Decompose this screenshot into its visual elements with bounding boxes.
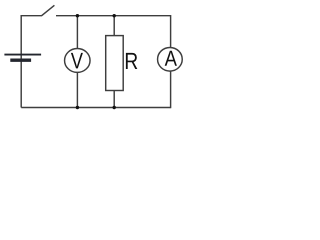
wire: right edge upper (to ammeter)	[170, 15, 172, 48]
resistor label R	[126, 53, 137, 69]
wire: resistor branch lower	[113, 90, 115, 108]
wire: voltmeter branch upper	[76, 16, 78, 50]
wire: right edge lower (from ammeter)	[170, 71, 172, 108]
switch S1 (open blade)	[41, 5, 54, 16]
voltmeter label V	[71, 53, 83, 68]
battery B1 long plate (+)	[4, 54, 41, 56]
resistor R body	[106, 36, 124, 91]
voltmeter U1 circle	[65, 49, 91, 73]
node: top junction of resistor branch	[113, 14, 116, 17]
node: top junction of voltmeter branch	[76, 14, 79, 17]
wire: left edge (battery branch)	[20, 15, 22, 108]
wire: voltmeter branch lower	[76, 72, 78, 108]
node: bottom junction of voltmeter branch	[76, 106, 79, 109]
ammeter U2 circle	[158, 48, 183, 72]
wire: resistor branch upper	[113, 16, 115, 37]
wire: bottom edge	[21, 107, 170, 109]
wire: top-left segment to switch pivot	[21, 15, 41, 17]
ammeter label A	[165, 51, 177, 66]
wire: top segment from switch contact to top-right corner	[56, 15, 171, 17]
battery B1 short thick plate (-)	[10, 59, 31, 62]
node: bottom junction of resistor branch	[113, 106, 116, 109]
